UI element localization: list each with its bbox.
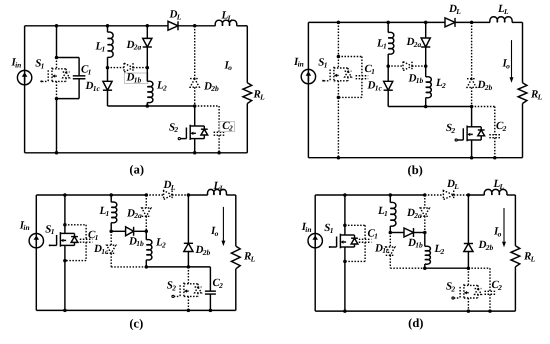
current source Iin (b) xyxy=(301,69,315,83)
wire: bottom rail (a) xyxy=(25,152,248,154)
resistor RL (a) xyxy=(243,83,252,104)
wire: S1 branch lower (d) xyxy=(344,261,346,311)
wire: S1 branch lower (c) xyxy=(64,261,66,311)
inductor LL (c) xyxy=(208,189,227,195)
diode DL (b) xyxy=(445,18,455,27)
svg-text:(d): (d) xyxy=(408,316,423,330)
arrow: output current Io (d) xyxy=(503,208,505,243)
wire: top right corner (a) xyxy=(237,25,248,27)
node: bottom rail / S1 (b) xyxy=(337,156,341,160)
transistor S2 (a) xyxy=(194,106,196,126)
node: bottom rail / S1 (c) xyxy=(63,309,67,313)
wire: right rail upper (b) xyxy=(522,22,524,82)
inductor L1 (c) xyxy=(110,195,112,202)
diode D2a (a) xyxy=(146,26,148,39)
wire: left rail (c) xyxy=(35,195,37,310)
wire: bottom-middle right segment (b) xyxy=(426,106,472,108)
node: DL cathode / D2b (a) xyxy=(193,24,197,28)
inductor L1 (d) xyxy=(389,195,391,203)
node: top rail / L1 (c) xyxy=(109,193,113,197)
transistor S1 (d) xyxy=(344,225,346,235)
node: top rail / D2a (a) xyxy=(146,24,150,28)
node: bottom rail / S2 (b) xyxy=(470,156,474,160)
diode D1c (b) xyxy=(387,66,389,81)
diode D1b (a) xyxy=(108,67,125,69)
node: top rail / D2a (c) xyxy=(145,193,149,197)
wire: top rail DL segment (c) xyxy=(146,194,163,196)
wire: top rail to L_L (d) xyxy=(468,194,484,196)
node: S1 drain junction (d) xyxy=(343,224,347,228)
node: D2a / D1b / L2 junction (a) xyxy=(146,66,150,70)
node: bottom rail / S1 (a) xyxy=(55,151,59,155)
wire: left rail (a) xyxy=(24,26,26,153)
capacitor C1 (a) xyxy=(57,57,80,59)
capacitor C1 (b) xyxy=(338,56,362,58)
node: L2 / bottom-middle wire (a) xyxy=(146,104,150,108)
current source Iin (a) xyxy=(17,70,31,84)
wire: S1 branch upper (d) xyxy=(344,195,346,225)
node: S1 drain junction (c) xyxy=(63,223,67,227)
diode DL (c) xyxy=(164,191,173,200)
node: bottom rail / S2 (a) xyxy=(193,151,197,155)
node: D2b / S2 junction (b) xyxy=(470,105,474,109)
transistor S1 (a) xyxy=(56,58,58,69)
capacitor C2 (d) xyxy=(468,267,490,269)
wire: bottom-middle right segment (c) xyxy=(146,266,188,268)
wire: top right corner (c) xyxy=(226,194,236,196)
inductor L2 (c) xyxy=(145,231,147,240)
node: L1 / D1c / D1b junction (c) xyxy=(109,230,113,234)
node: top rail / S1 (a) xyxy=(55,24,59,28)
wire: left rail (d) xyxy=(314,195,316,311)
diode DL (d) xyxy=(443,191,453,200)
node: D2a / D1b / L2 junction (b) xyxy=(424,64,428,68)
wire: S1 branch lower (a) xyxy=(56,99,58,153)
node: S1 source junction (b) xyxy=(337,96,341,100)
diode D1c (a) xyxy=(107,68,109,82)
diode DL (a) xyxy=(168,21,178,30)
node: L2 / bottom-middle wire (b) xyxy=(424,105,428,109)
wire: S1 branch upper (c) xyxy=(64,195,66,225)
transistor S1 (c) xyxy=(64,225,66,234)
node: D2a / D1b / L2 junction (c) xyxy=(145,230,149,234)
current source Iin (c) xyxy=(29,234,43,248)
resistor RL (c) xyxy=(231,246,240,269)
svg-text:(b): (b) xyxy=(408,163,423,177)
arrow: output current Io (b) xyxy=(511,40,513,78)
node: L1 / D1c / D1b junction (a) xyxy=(106,66,110,70)
diode D2a (c) xyxy=(145,195,147,208)
current source Iin (d) xyxy=(308,234,322,248)
diode D1b (b) xyxy=(388,65,403,67)
diode D2b (a) xyxy=(194,26,196,79)
resistor RL (b) xyxy=(518,83,527,104)
wire: top rail to L_L (a) xyxy=(195,25,216,27)
diode D1c (d) xyxy=(389,233,391,248)
node: top rail / D2a (d) xyxy=(423,193,427,197)
node: top rail / S1 (b) xyxy=(337,21,341,25)
diode D2a (b) xyxy=(425,22,427,38)
transistor S2 (c) xyxy=(187,267,189,284)
inductor L1 (b) xyxy=(387,22,389,32)
node: D2a / D1b / L2 junction (d) xyxy=(423,231,427,235)
wire: top rail to L_L (b) xyxy=(472,21,490,23)
diode D1c (c) xyxy=(110,231,112,245)
transistor S2 (d) xyxy=(467,268,469,285)
wire: bottom-middle left segment (c) xyxy=(111,266,146,268)
node: D2b / S2 junction (d) xyxy=(467,266,471,270)
node: D2b / S2 junction (c) xyxy=(187,265,191,269)
node: top rail / S1 (c) xyxy=(63,193,67,197)
node: DL cathode / D2b (b) xyxy=(470,21,474,25)
diode D1b (c) xyxy=(111,230,125,232)
capacitor C1 (d) xyxy=(345,224,365,226)
capacitor C2 (b) xyxy=(472,106,495,108)
wire: top right corner (d) xyxy=(507,194,516,196)
wire: S1 branch upper (a) xyxy=(56,26,58,58)
inductor L2 (a) xyxy=(146,68,148,82)
inductor LL (d) xyxy=(484,189,507,195)
wire: bottom rail (c) xyxy=(36,309,236,311)
wire: right rail upper (a) xyxy=(246,26,248,83)
wire: S1 branch upper (b) xyxy=(337,22,339,56)
wire: right rail lower (b) xyxy=(522,104,524,158)
capacitor C1 (c) xyxy=(65,224,86,226)
wire: bottom-middle right segment (a) xyxy=(147,105,194,107)
node: top rail / L1 (d) xyxy=(389,193,393,197)
svg-text:(c): (c) xyxy=(129,317,143,331)
wire: top rail DL segment (d) xyxy=(425,194,444,196)
label C2 (a) xyxy=(220,122,235,132)
node: bottom rail / C2 (b) xyxy=(493,156,497,160)
wire: bottom rail (b) xyxy=(308,157,522,159)
node: bottom rail / S2 (d) xyxy=(467,309,471,313)
wire: top rail left section (c) xyxy=(36,194,146,196)
wire: bottom-middle left segment (d) xyxy=(390,267,425,269)
node: bottom rail / S1 (d) xyxy=(343,309,347,313)
node: DL cathode / D2b (d) xyxy=(467,193,471,197)
wire: left rail (b) xyxy=(307,22,309,157)
wire: right rail upper (d) xyxy=(514,195,516,246)
wire: right rail upper (c) xyxy=(235,195,237,246)
node: bottom rail / C2 (c) xyxy=(209,309,213,313)
diode D2b (c) xyxy=(187,195,189,243)
node: S1 source junction (a) xyxy=(55,97,59,101)
node: S1 drain junction (b) xyxy=(337,55,341,59)
wire: bottom-middle left segment (a) xyxy=(108,105,148,107)
transistor S2 (b) xyxy=(471,107,473,127)
node: S1 drain junction (a) xyxy=(55,56,59,60)
wire: bottom rail (d) xyxy=(315,310,515,312)
node: L2 / bottom-middle wire (d) xyxy=(423,266,427,270)
wire: top rail DL segment (a) xyxy=(178,25,195,27)
wire: bottom-middle right segment (d) xyxy=(425,267,469,269)
wire: bottom-middle left segment (b) xyxy=(388,106,426,108)
transistor S1 (b) xyxy=(337,57,339,69)
inductor L2 (b) xyxy=(425,66,427,77)
inductor LL (a) xyxy=(215,20,237,26)
inductor L1 (a) xyxy=(107,26,109,32)
node: bottom rail / C2 (a) xyxy=(217,151,221,155)
inductor L2 (d) xyxy=(424,233,426,247)
node: L2 / bottom-middle wire (c) xyxy=(145,265,149,269)
svg-text:(a): (a) xyxy=(129,162,144,176)
diode D2a (d) xyxy=(424,195,426,208)
label D1b (a) xyxy=(124,73,147,83)
node: S1 source junction (d) xyxy=(343,260,347,264)
wire: right rail lower (c) xyxy=(235,269,237,311)
wire: top rail to L_L (c) xyxy=(188,194,207,196)
node: top rail / L1 (b) xyxy=(386,21,390,25)
node: bottom rail / S2 (c) xyxy=(187,309,191,313)
resistor RL (d) xyxy=(511,246,520,267)
inductor LL (b) xyxy=(490,17,512,23)
wire: top rail left section (a) xyxy=(25,25,168,27)
wire: top rail DL segment (b) xyxy=(455,21,472,23)
wire: top rail left section (d) xyxy=(315,194,425,196)
diode D2b (d) xyxy=(467,195,469,244)
capacitor C2 (c) xyxy=(188,266,210,268)
wire: top right corner (b) xyxy=(512,21,523,23)
node: L1 / D1c / D1b junction (b) xyxy=(386,64,390,68)
wire: S1 branch lower (b) xyxy=(337,97,339,157)
diode D2b (b) xyxy=(471,22,473,78)
node: top rail / L1 (a) xyxy=(106,24,110,28)
capacitor C2 (a) xyxy=(195,105,219,107)
node: bottom rail / C2 (d) xyxy=(488,309,492,313)
node: L1 / D1c / D1b junction (d) xyxy=(389,231,393,235)
diode D1b (d) xyxy=(390,232,404,234)
node: S1 source junction (c) xyxy=(63,259,67,263)
wire: top rail left section (b) xyxy=(308,21,445,23)
arrow: output current Io (c) xyxy=(222,207,224,242)
wire: right rail lower (a) xyxy=(246,104,248,153)
node: DL cathode / D2b (c) xyxy=(187,193,191,197)
node: top rail / D2a (b) xyxy=(424,21,428,25)
wire: right rail lower (d) xyxy=(514,267,516,311)
node: D2b / S2 junction (a) xyxy=(193,104,197,108)
node: top rail / S1 (d) xyxy=(343,193,347,197)
